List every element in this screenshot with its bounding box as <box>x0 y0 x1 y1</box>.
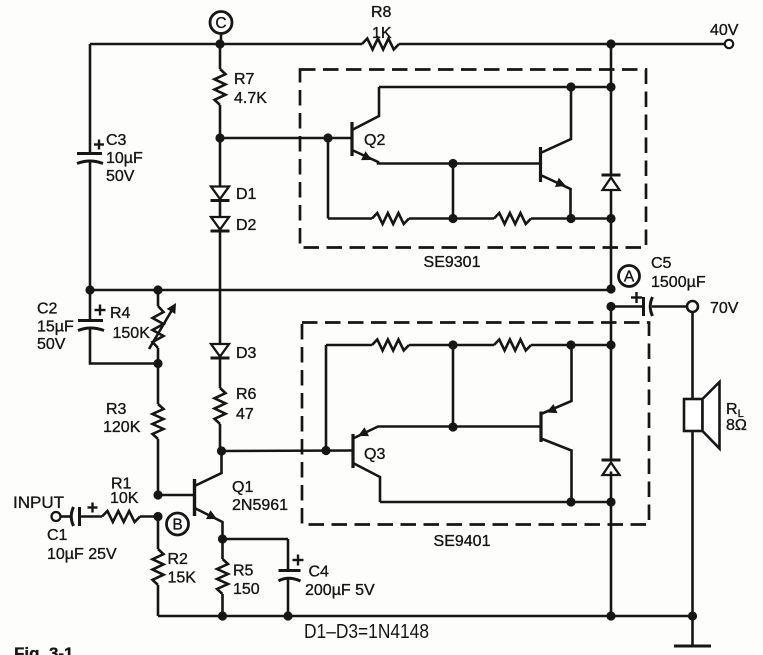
wire SE9401 bottom line <box>380 501 611 504</box>
diode D1 <box>211 187 230 201</box>
junction SE9401 top mid <box>448 340 457 349</box>
svg-text:SE9401: SE9401 <box>434 533 491 550</box>
svg-text:8Ω: 8Ω <box>726 417 747 434</box>
svg-text:C2: C2 <box>37 301 58 318</box>
junction R7 bottom <box>215 133 224 142</box>
ground <box>674 616 711 646</box>
resistor R1 <box>102 511 158 522</box>
junction SE9301 emitter line <box>448 159 457 168</box>
label R3 <box>106 401 127 418</box>
label C3 voltage <box>106 168 135 185</box>
junction SE9301 bottom rail <box>606 214 615 223</box>
resistor R4 variable <box>153 290 164 364</box>
label 70V <box>710 300 739 317</box>
label Q1 <box>232 479 253 496</box>
node C <box>210 12 232 45</box>
junction SE9401 top b <box>606 340 615 349</box>
svg-text:4.7K: 4.7K <box>234 90 267 107</box>
transistor Q3 bar <box>351 434 354 468</box>
label R6 value <box>236 406 254 423</box>
terminal 70V <box>687 301 698 312</box>
svg-text:1K: 1K <box>372 25 392 42</box>
label C2 voltage <box>37 336 66 353</box>
wire right rail mid <box>610 307 613 460</box>
svg-text:SE9301: SE9301 <box>424 254 481 271</box>
label R7 value <box>234 90 267 107</box>
svg-text:10K: 10K <box>110 490 139 507</box>
label 1K <box>372 25 392 42</box>
junction node C on rail <box>215 39 224 48</box>
wire right rail below diode1 <box>610 191 613 290</box>
wire Q2 base feed <box>220 137 351 140</box>
label Q2 <box>364 132 385 149</box>
junction SE9401 base line <box>448 422 457 431</box>
label R2 <box>168 551 189 568</box>
transistor SE9301 output emitter <box>541 175 571 219</box>
label SE9301 <box>424 254 481 271</box>
junction SE9301 top b <box>606 82 615 91</box>
terminal INPUT <box>52 512 61 521</box>
wire 70V to speaker <box>691 312 694 399</box>
diode D2 <box>211 217 230 231</box>
svg-text:Fig. 3-1: Fig. 3-1 <box>14 644 74 655</box>
junction Q1 base tee <box>153 490 162 499</box>
svg-text:R6: R6 <box>236 386 257 403</box>
transistor Q2 bar <box>350 122 353 156</box>
resistor R7 <box>215 44 226 138</box>
wire SE9401 mid drop <box>452 345 455 427</box>
label D2 <box>236 217 257 234</box>
junction R6 bottom <box>217 446 226 455</box>
label SE9401 <box>434 533 491 550</box>
label R8 <box>371 4 392 21</box>
svg-text:C5: C5 <box>651 255 672 272</box>
diode D3 <box>211 344 230 358</box>
transistor SE9401 output emitter <box>541 345 572 414</box>
label C1 value <box>47 546 117 563</box>
label RL <box>726 401 744 420</box>
label C2 plus <box>95 305 106 316</box>
svg-text:D3: D3 <box>236 345 257 362</box>
label D3 <box>236 345 257 362</box>
wire top supply rail right segment <box>399 43 725 46</box>
wire D1 to D2 <box>219 201 222 217</box>
label C5 plus <box>631 292 642 303</box>
resistor R4 arrow <box>149 303 176 349</box>
svg-text:120K: 120K <box>103 419 141 436</box>
svg-text:Q1: Q1 <box>232 479 253 496</box>
label R4 value <box>113 325 151 342</box>
svg-text:50V: 50V <box>106 168 135 185</box>
label R5 value <box>233 581 260 598</box>
node B <box>167 513 189 535</box>
IC SE9301 dashed box <box>300 70 646 248</box>
label INPUT <box>13 493 64 512</box>
transistor SE9401 output collector <box>541 439 572 503</box>
wire SE9301 left drop <box>327 138 330 219</box>
wire right rail lower <box>610 472 613 617</box>
svg-text:R7: R7 <box>234 71 255 88</box>
label D1 <box>236 186 257 203</box>
svg-text:INPUT: INPUT <box>13 493 64 512</box>
junction R4 bottom <box>153 359 162 368</box>
svg-text:C3: C3 <box>106 132 127 149</box>
capacitor C1 <box>61 507 103 526</box>
junction bottom right rail <box>606 611 615 620</box>
transistor SE9301 output collector <box>541 87 572 153</box>
label R3 value <box>103 419 141 436</box>
resistor R2 <box>153 517 164 617</box>
wire D2 down across mid rail <box>219 232 222 345</box>
label C3 <box>106 132 127 149</box>
svg-text:R8: R8 <box>371 4 392 21</box>
label Q1 type <box>232 497 288 514</box>
junction Q3 base <box>321 446 330 455</box>
transistor Q2 collector <box>352 87 379 130</box>
wire SE9301 top line <box>379 86 611 89</box>
capacitor C3 <box>77 154 103 291</box>
junction bottom speaker <box>688 611 697 620</box>
junction SE9401 bottom a <box>566 497 575 506</box>
wire Q1 base <box>158 494 195 497</box>
wire D3 to R6 <box>219 359 222 389</box>
junction SE9301 top a <box>566 82 575 91</box>
resistor SE9401 internal left <box>326 340 452 351</box>
svg-text:200µF 5V: 200µF 5V <box>305 582 375 599</box>
junction Q2 base <box>323 133 332 142</box>
junction bottom C4 <box>283 611 292 620</box>
svg-text:R5: R5 <box>233 563 254 580</box>
svg-text:C4: C4 <box>309 564 330 581</box>
label R6 <box>236 386 257 403</box>
resistor SE9301 internal right <box>452 213 611 224</box>
label R2 value <box>168 570 197 587</box>
svg-text:15K: 15K <box>168 570 197 587</box>
label R1 value <box>110 490 139 507</box>
svg-text:R4: R4 <box>110 305 131 322</box>
svg-text:R3: R3 <box>106 401 127 418</box>
junction Q1 emitter <box>218 534 227 543</box>
junction top rail right <box>606 39 615 48</box>
svg-text:2N5961: 2N5961 <box>232 497 288 514</box>
label C2 value <box>37 319 74 336</box>
IC SE9401 dashed box <box>302 323 649 525</box>
wire SE9401 left riser <box>325 345 328 451</box>
wire SE9301 mid drop <box>452 164 455 219</box>
wire top supply rail left segment <box>90 43 362 46</box>
resistor R3 <box>153 364 164 496</box>
junction C5 stub <box>606 302 615 311</box>
label 40V <box>710 22 739 39</box>
label C4 plus <box>293 555 304 566</box>
capacitor C4 <box>279 539 301 616</box>
resistor R5 <box>217 539 228 616</box>
label R4 <box>110 305 131 322</box>
label C3 value <box>106 150 143 167</box>
junction mid rail right <box>606 284 615 293</box>
label C5 <box>651 255 672 272</box>
wire speaker to ground rail <box>691 431 694 616</box>
transistor SE9301 output bar <box>539 147 542 182</box>
transistor SE9401 output bar <box>539 412 542 443</box>
svg-text:10µF 25V: 10µF 25V <box>47 546 117 563</box>
label C4 value <box>305 582 375 599</box>
svg-text:150K: 150K <box>113 325 151 342</box>
wire mid rail <box>90 289 611 292</box>
label R5 <box>233 563 254 580</box>
diode SE9401 internal <box>602 460 621 475</box>
junction R1 right <box>153 512 162 521</box>
wire emitter to C4 <box>223 538 289 541</box>
wire bottom rail <box>158 615 693 618</box>
svg-text:Q3: Q3 <box>364 446 385 463</box>
resistor R8 <box>362 39 399 50</box>
wire R7 to D1 <box>219 138 222 186</box>
label D1-D3 note <box>304 621 429 643</box>
caption Fig 3-1 <box>14 644 74 655</box>
transistor Q1 emitter <box>195 508 223 539</box>
svg-text:150: 150 <box>233 581 260 598</box>
wire Q3 base feed <box>222 449 353 452</box>
label RL value <box>726 417 747 434</box>
label C1 <box>47 527 68 544</box>
resistor R6 <box>215 388 226 451</box>
diode SE9301 internal <box>602 175 621 190</box>
label C4 <box>309 564 330 581</box>
wire right rail upper <box>610 44 613 174</box>
svg-text:Q2: Q2 <box>364 132 385 149</box>
label C1 plus <box>88 503 98 513</box>
junction SE9301 bottom mid <box>448 214 457 223</box>
label R7 <box>234 71 255 88</box>
svg-text:1500µF: 1500µF <box>651 274 706 291</box>
svg-text:47: 47 <box>236 406 254 423</box>
svg-text:D1–D3=1N4148: D1–D3=1N4148 <box>304 621 429 643</box>
junction mid rail R4 <box>153 285 162 294</box>
svg-text:15µF: 15µF <box>37 319 74 336</box>
label C5 value <box>651 274 706 291</box>
junction SE9401 bottom b <box>606 497 615 506</box>
svg-text:C1: C1 <box>47 527 68 544</box>
svg-text:40V: 40V <box>710 22 739 39</box>
junction bottom R5 <box>218 611 227 620</box>
svg-text:10µF: 10µF <box>106 150 143 167</box>
resistor SE9401 internal right <box>452 340 611 351</box>
junction SE9301 bottom right <box>566 214 575 223</box>
svg-text:D2: D2 <box>236 217 257 234</box>
label R1 <box>111 476 132 493</box>
svg-text:50V: 50V <box>37 336 66 353</box>
capacitor C5 <box>611 297 687 316</box>
transistor Q1 bar <box>193 479 196 516</box>
node A <box>619 266 640 287</box>
label C3 plus <box>94 140 104 150</box>
svg-text:R2: R2 <box>168 551 189 568</box>
svg-text:D1: D1 <box>236 186 257 203</box>
svg-text:B: B <box>172 517 182 534</box>
resistor SE9301 internal left <box>328 213 452 224</box>
label Q3 <box>364 446 385 463</box>
svg-text:70V: 70V <box>710 300 739 317</box>
wire left branch upper <box>89 44 92 153</box>
junction SE9401 top a <box>566 340 575 349</box>
transistor Q3 collector <box>353 463 380 502</box>
transistor Q3 emitter <box>353 427 541 439</box>
terminal 40V <box>725 40 733 48</box>
transistor Q1 collector <box>195 451 222 486</box>
junction mid rail left <box>85 285 94 294</box>
transistor Q2 emitter <box>352 150 540 164</box>
label C2 <box>37 301 58 318</box>
capacitor C2 <box>78 290 158 364</box>
svg-text:A: A <box>624 269 635 286</box>
speaker RL <box>684 382 720 449</box>
svg-text:C: C <box>215 15 226 32</box>
